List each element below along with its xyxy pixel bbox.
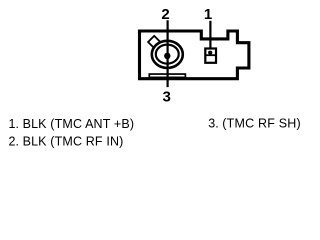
svg-text:3.(TMC RF SH): 3.(TMC RF SH) xyxy=(208,116,301,130)
svg-text:1.BLK (TMC ANT +B): 1.BLK (TMC ANT +B) xyxy=(9,117,135,131)
svg-text:1: 1 xyxy=(204,6,212,23)
svg-text:3: 3 xyxy=(163,89,171,106)
svg-text:2: 2 xyxy=(161,6,169,23)
svg-text:2.BLK (TMC RF IN): 2.BLK (TMC RF IN) xyxy=(9,135,124,149)
